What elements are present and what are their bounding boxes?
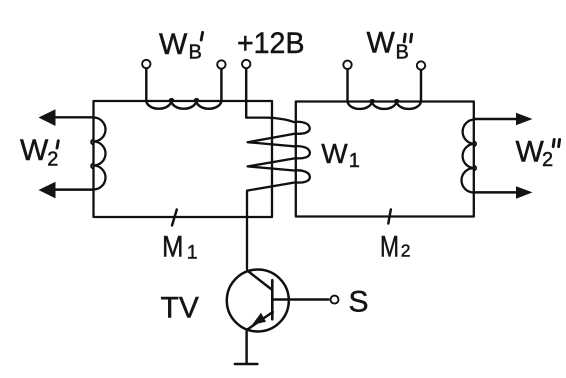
svg-text:W: W: [20, 134, 49, 167]
svg-text:W: W: [516, 136, 545, 169]
svg-text:1: 1: [187, 241, 198, 263]
svg-text:TV: TV: [161, 292, 199, 325]
svg-text:W: W: [367, 27, 396, 60]
svg-text:+12B: +12B: [237, 27, 305, 60]
svg-text:M: M: [380, 231, 399, 264]
svg-text:W: W: [321, 138, 348, 169]
svg-text:2: 2: [47, 149, 58, 171]
svg-text:B: B: [396, 41, 409, 63]
svg-text:2: 2: [401, 241, 411, 261]
svg-text:B: B: [189, 42, 202, 64]
svg-text:2: 2: [542, 149, 553, 171]
svg-text:W: W: [159, 28, 188, 61]
svg-text:M: M: [162, 231, 184, 264]
svg-text:S: S: [349, 286, 369, 319]
svg-text:1: 1: [349, 150, 360, 172]
